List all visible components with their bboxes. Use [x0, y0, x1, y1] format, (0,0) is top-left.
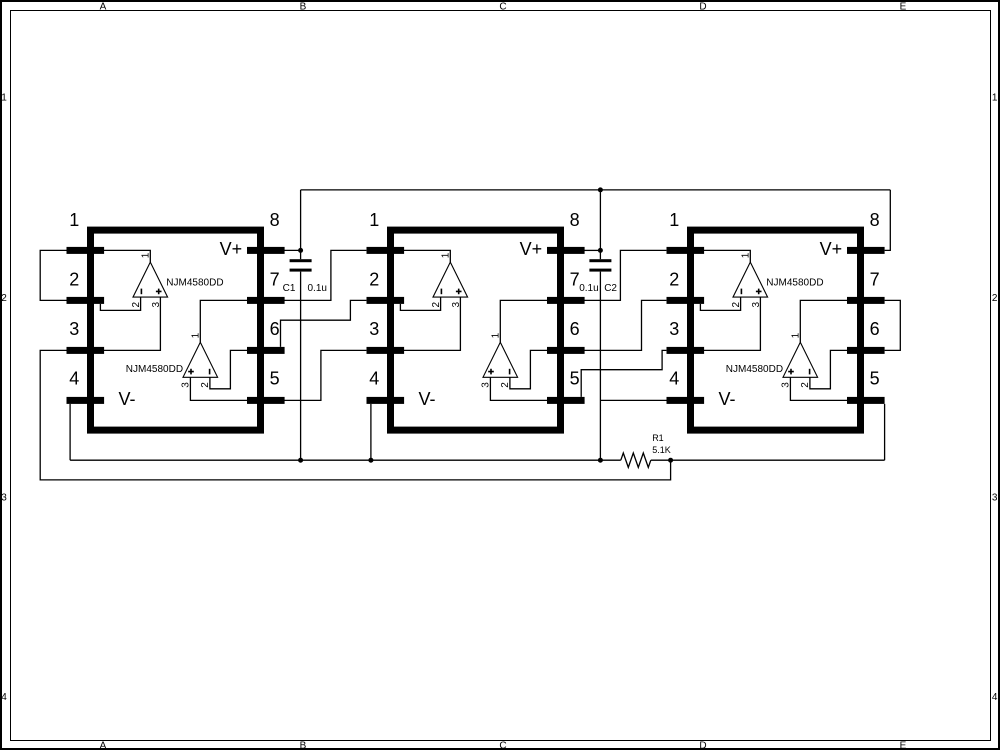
- svg-text:8: 8: [570, 210, 580, 230]
- svg-text:1: 1: [669, 210, 679, 230]
- wire IC1 pin7 to IC2 pin1: [285, 250, 367, 300]
- IC2 pin 1 stub: [367, 247, 405, 254]
- wire IC3 pin4 to C2 bottom lead: [600, 399, 666, 401]
- op-amp U2B plus input sign: [488, 369, 494, 375]
- wire U3A inverting input to pin 2 stub: [700, 297, 740, 310]
- svg-text:C2: C2: [604, 283, 617, 294]
- svg-text:4: 4: [992, 692, 998, 703]
- wire C1 top lead down from V+ bus: [300, 190, 302, 259]
- wire U2A output to pin 1 stub: [404, 250, 450, 262]
- op-amp U2B minus input sign: [509, 369, 511, 375]
- op-amp U3B plus input sign: [788, 369, 794, 375]
- wire IC1 pin8 to C1 node: [285, 249, 301, 251]
- op-amp U1B plus input sign: [188, 369, 194, 375]
- svg-text:NJM4580DD: NJM4580DD: [766, 277, 823, 288]
- wire U2A non-inverting input to pin 3 stub: [404, 297, 460, 350]
- svg-text:1: 1: [992, 92, 998, 103]
- svg-text:8: 8: [270, 210, 280, 230]
- svg-text:4: 4: [1, 692, 7, 703]
- op-amp U1B (unit B of IC1): [183, 342, 218, 377]
- svg-text:V-: V-: [419, 389, 436, 409]
- svg-text:A: A: [100, 1, 107, 12]
- IC2 NJM4580DD DIP-8 package body: [391, 230, 561, 430]
- wire V+ bus down to IC3 pin8: [885, 190, 891, 251]
- IC2 pin 8 stub: [547, 247, 585, 254]
- wire U2A inverting input to pin 2 stub: [400, 297, 440, 310]
- wire IC3 pin7 to pin6 loop: [885, 300, 901, 350]
- svg-text:E: E: [900, 741, 907, 750]
- svg-text:2: 2: [992, 293, 998, 304]
- svg-text:2: 2: [69, 269, 79, 289]
- svg-text:NJM4580DD: NJM4580DD: [726, 364, 783, 375]
- svg-text:E: E: [900, 1, 907, 12]
- svg-text:1: 1: [69, 210, 79, 230]
- IC2 pin 6 stub: [547, 347, 585, 354]
- svg-text:C1: C1: [283, 283, 296, 294]
- IC2 pin 2 stub: [367, 297, 405, 304]
- svg-text:V-: V-: [119, 389, 136, 409]
- svg-text:3: 3: [669, 319, 679, 339]
- svg-text:7: 7: [270, 269, 280, 289]
- IC3 NJM4580DD DIP-8 package body: [691, 230, 861, 430]
- wire C2 bottom lead to V- bus: [599, 272, 601, 461]
- wire U1B output to pin 7 stub: [200, 300, 247, 342]
- IC2 pin 7 stub: [547, 297, 585, 304]
- wire U1A output to pin 1 stub: [104, 250, 150, 262]
- op-amp U2B (unit B of IC2): [483, 342, 518, 377]
- op-amp U1B minus input sign: [209, 369, 211, 375]
- wire U3B non-inverting input to pin 5 stub: [790, 377, 847, 400]
- wire U2B output to pin 7 stub: [500, 300, 547, 342]
- capacitor C2 lower plate: [589, 269, 611, 272]
- node junction dot C1/IC1 pin8: [298, 248, 303, 253]
- wire C2 top lead down from V+ bus: [599, 190, 601, 259]
- svg-text:3: 3: [992, 493, 998, 504]
- svg-text:V+: V+: [820, 239, 843, 259]
- wire U1B inverting input to pin 6 stub: [210, 350, 247, 388]
- wire bus right end up to IC3 pin5: [884, 404, 886, 460]
- svg-text:8: 8: [870, 210, 880, 230]
- wire IC3 pin3 to IC2 pin5: [581, 350, 666, 397]
- svg-text:C: C: [499, 741, 506, 750]
- svg-text:NJM4580DD: NJM4580DD: [126, 364, 183, 375]
- IC3 pin 8 stub: [847, 247, 885, 254]
- node junction dot R1 right / feedback tap: [668, 458, 673, 463]
- wire IC1 pin1 to pin2 loop: [40, 250, 66, 300]
- svg-text:D: D: [699, 1, 706, 12]
- svg-text:7: 7: [570, 269, 580, 289]
- wire C1 bottom lead to V- bus: [300, 272, 302, 461]
- op-amp U3A plus input sign: [756, 289, 762, 295]
- node junction dot IC2 pin4 on V- bus: [368, 458, 373, 463]
- svg-text:NJM4580DD: NJM4580DD: [166, 277, 223, 288]
- op-amp U1A (unit A of IC1): [133, 262, 168, 297]
- wire U2B non-inverting input to pin 5 stub: [490, 377, 547, 400]
- op-amp U3B minus input sign: [809, 369, 811, 375]
- IC1 pin 7 stub: [247, 297, 285, 304]
- node junction dot C2 bottom on V- bus: [598, 458, 603, 463]
- svg-text:4: 4: [669, 369, 679, 389]
- svg-text:5: 5: [270, 369, 280, 389]
- svg-text:B: B: [300, 1, 307, 12]
- IC3 pin 2 stub: [667, 297, 705, 304]
- op-amp U2A minus input sign: [440, 289, 442, 295]
- svg-text:4: 4: [69, 369, 79, 389]
- wire V+ top bus: [301, 189, 891, 191]
- svg-text:V+: V+: [220, 239, 243, 259]
- svg-text:2: 2: [669, 269, 679, 289]
- IC3 pin 7 stub: [847, 297, 885, 304]
- wire IC2 pin8 to C2 node: [585, 249, 601, 251]
- node junction dot C1 bottom on V- bus: [298, 458, 303, 463]
- capacitor C1 upper plate: [290, 259, 312, 262]
- svg-text:C: C: [499, 1, 506, 12]
- wire V- bus left section: [70, 459, 621, 461]
- svg-text:2: 2: [369, 269, 379, 289]
- IC1 pin 4 stub: [67, 397, 105, 404]
- IC1 pin 2 stub: [67, 297, 105, 304]
- resistor R1 zigzag body: [621, 453, 651, 467]
- op-amp U3B (unit B of IC3): [783, 342, 818, 377]
- wire U1A inverting input to pin 2 stub: [100, 297, 140, 310]
- wire U2B inverting input to pin 6 stub: [510, 350, 547, 388]
- svg-text:D: D: [699, 741, 706, 750]
- wire IC1 pin4 down to V- bus: [69, 404, 71, 460]
- svg-text:1: 1: [1, 92, 7, 103]
- svg-text:3: 3: [369, 319, 379, 339]
- svg-text:3: 3: [1, 493, 7, 504]
- svg-text:5.1K: 5.1K: [652, 445, 671, 455]
- svg-text:2: 2: [1, 293, 7, 304]
- IC3 pin 4 stub: [667, 397, 705, 404]
- op-amp U1A minus input sign: [140, 289, 142, 295]
- wire U1A non-inverting input to pin 3 stub: [104, 297, 160, 350]
- op-amp U2A plus input sign: [456, 289, 462, 295]
- node junction dot C2/IC2 pin8: [598, 248, 603, 253]
- wire IC2 pin7 to IC3 pin1: [585, 250, 667, 300]
- wire U3A output to pin 1 stub: [704, 250, 750, 262]
- IC1 NJM4580DD DIP-8 package body: [91, 230, 261, 430]
- IC3 pin 5 stub: [847, 397, 885, 404]
- IC3 pin 6 stub: [847, 347, 885, 354]
- svg-text:0.1u: 0.1u: [579, 283, 598, 294]
- IC2 pin 3 stub: [367, 347, 405, 354]
- IC2 pin 4 stub: [367, 397, 405, 404]
- IC3 pin 1 stub: [667, 247, 705, 254]
- svg-text:V-: V-: [719, 389, 736, 409]
- svg-text:A: A: [100, 741, 107, 750]
- svg-text:6: 6: [270, 319, 280, 339]
- node junction dot C2 top on V+ bus: [598, 187, 603, 192]
- wire IC2 pin2 to IC1 pin6: [281, 300, 367, 347]
- capacitor C1 lower plate: [290, 269, 312, 272]
- op-amp U3A (unit A of IC3): [733, 262, 768, 297]
- svg-text:6: 6: [870, 319, 880, 339]
- capacitor C2 upper plate: [589, 259, 611, 262]
- op-amp U3A minus input sign: [740, 289, 742, 295]
- IC1 pin 6 stub: [247, 347, 285, 354]
- svg-text:R1: R1: [652, 433, 664, 443]
- wire U1B non-inverting input to pin 5 stub: [190, 377, 247, 400]
- svg-text:6: 6: [570, 319, 580, 339]
- wire IC2 pin3 to IC1 pin5: [285, 350, 367, 400]
- op-amp U2A (unit A of IC2): [433, 262, 468, 297]
- IC3 pin 3 stub: [667, 347, 705, 354]
- wire IC3 pin2 to IC2 pin6: [585, 300, 667, 350]
- svg-text:3: 3: [69, 319, 79, 339]
- IC2 pin 5 stub: [547, 397, 585, 404]
- svg-text:5: 5: [570, 369, 580, 389]
- IC1 pin 5 stub: [247, 397, 285, 404]
- IC1 pin 3 stub: [67, 347, 105, 354]
- svg-text:5: 5: [870, 369, 880, 389]
- svg-text:4: 4: [369, 369, 379, 389]
- wire U3B inverting input to pin 6 stub: [810, 350, 847, 388]
- IC1 pin 1 stub: [67, 247, 105, 254]
- svg-text:0.1u: 0.1u: [308, 283, 327, 294]
- wire feedback tap down-left to IC1 pin3: [40, 350, 670, 480]
- op-amp U1A plus input sign: [156, 289, 162, 295]
- wire R1 right lead on V- bus: [651, 459, 885, 461]
- wire U3A non-inverting input to pin 3 stub: [704, 297, 760, 350]
- wire U3B output to pin 7 stub: [800, 300, 847, 342]
- wire IC2 pin4 down to V- bus: [370, 404, 372, 460]
- svg-text:7: 7: [870, 269, 880, 289]
- IC1 pin 8 stub: [247, 247, 285, 254]
- svg-text:B: B: [300, 741, 307, 750]
- svg-text:1: 1: [369, 210, 379, 230]
- svg-text:V+: V+: [520, 239, 543, 259]
